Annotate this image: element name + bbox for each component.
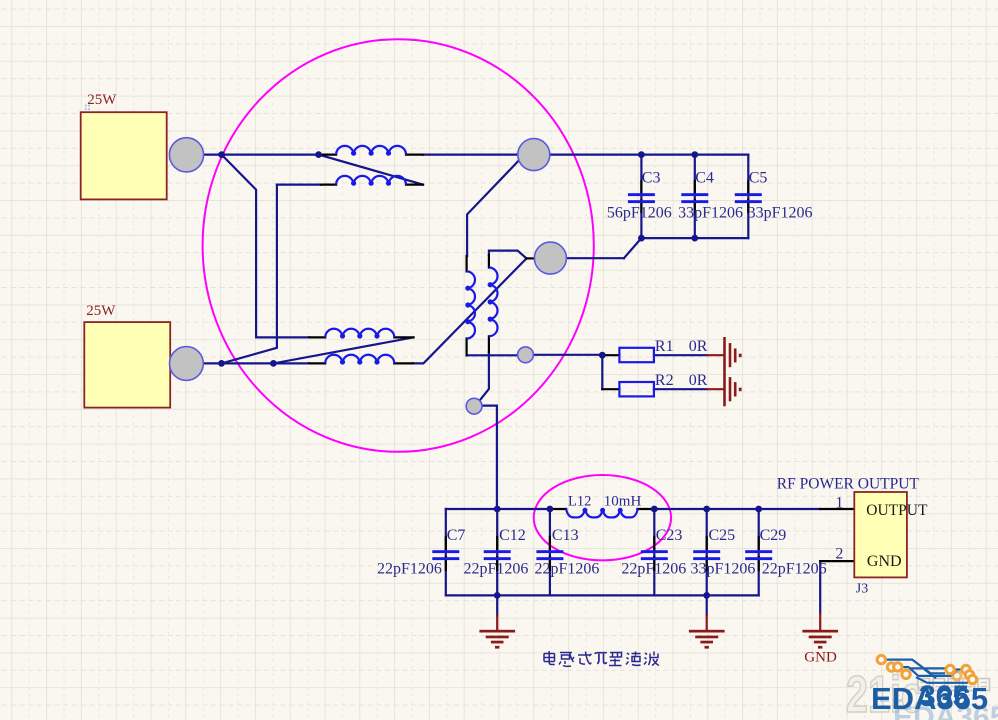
svg-text:22pF1206: 22pF1206 bbox=[762, 561, 827, 578]
svg-text:C23: C23 bbox=[656, 527, 683, 544]
svg-text:C25: C25 bbox=[709, 527, 736, 544]
svg-text:0R: 0R bbox=[689, 372, 708, 389]
svg-text:2: 2 bbox=[835, 545, 843, 562]
svg-text:10mH: 10mH bbox=[604, 493, 642, 509]
svg-text:C5: C5 bbox=[749, 170, 768, 187]
svg-text:33pF1206: 33pF1206 bbox=[691, 561, 756, 578]
svg-text:R1: R1 bbox=[655, 338, 674, 355]
svg-text:C13: C13 bbox=[552, 527, 579, 544]
svg-text:22pF1206: 22pF1206 bbox=[377, 561, 442, 578]
svg-text:C12: C12 bbox=[499, 527, 526, 544]
svg-text:22pF1206: 22pF1206 bbox=[535, 561, 600, 578]
svg-text:C3: C3 bbox=[642, 170, 661, 187]
svg-text:56pF1206: 56pF1206 bbox=[607, 205, 672, 222]
svg-text:22pF1206: 22pF1206 bbox=[621, 561, 686, 578]
svg-text:OUTPUT: OUTPUT bbox=[866, 502, 928, 519]
svg-text:22pF1206: 22pF1206 bbox=[464, 561, 529, 578]
svg-text:25W: 25W bbox=[86, 303, 116, 319]
svg-text:EDA365: EDA365 bbox=[871, 681, 988, 716]
svg-text:1: 1 bbox=[835, 494, 843, 511]
svg-text:C7: C7 bbox=[447, 527, 466, 544]
svg-text:GND: GND bbox=[804, 649, 837, 665]
svg-text:L12: L12 bbox=[568, 493, 591, 509]
svg-text:25W: 25W bbox=[87, 92, 117, 108]
svg-text:33pF1206: 33pF1206 bbox=[748, 205, 813, 222]
svg-text:C4: C4 bbox=[695, 170, 714, 187]
svg-text:0R: 0R bbox=[689, 338, 708, 355]
svg-text:33pF1206: 33pF1206 bbox=[678, 205, 743, 222]
svg-text:RF POWER OUTPUT: RF POWER OUTPUT bbox=[777, 476, 920, 493]
svg-text:C29: C29 bbox=[760, 527, 787, 544]
svg-text:GND: GND bbox=[867, 553, 902, 570]
svg-text:J3: J3 bbox=[856, 582, 868, 597]
svg-text:R2: R2 bbox=[655, 372, 674, 389]
